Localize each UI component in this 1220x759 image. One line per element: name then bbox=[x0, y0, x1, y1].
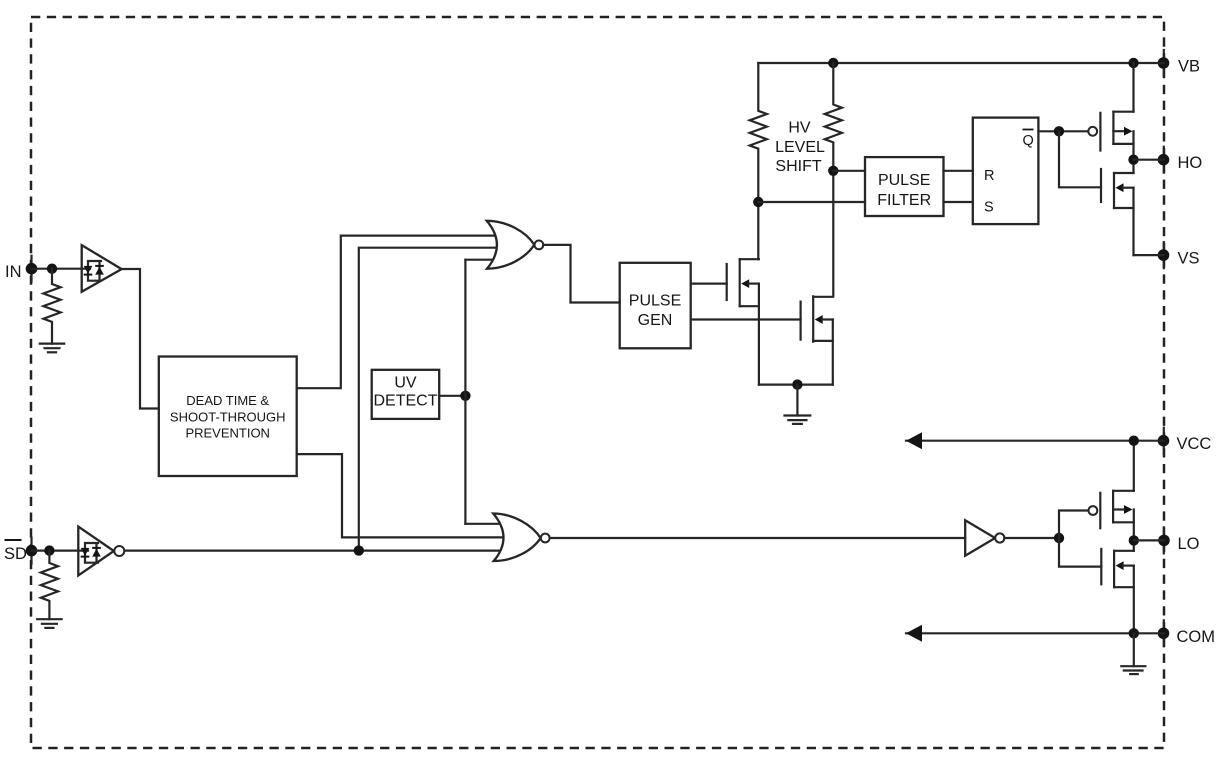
pin COM bbox=[1158, 628, 1215, 646]
wire S path to PULSE FILTER bbox=[758, 201, 865, 203]
wire NOR1 output to PULSE GEN bbox=[543, 245, 619, 303]
wire SD line to NOR1 input B (vertical) bbox=[359, 248, 503, 551]
pin LO bbox=[1158, 535, 1199, 553]
svg-text:DEAD TIME &: DEAD TIME & bbox=[186, 393, 269, 408]
wire R path to PULSE FILTER bbox=[833, 170, 865, 172]
wire DT top output to NOR1 input A bbox=[297, 236, 503, 389]
resistor R-IN pulldown bbox=[43, 269, 60, 344]
pin IN bbox=[5, 263, 37, 281]
svg-text:PULSE: PULSE bbox=[878, 172, 930, 189]
svg-text:S: S bbox=[984, 200, 994, 216]
svg-text:VCC: VCC bbox=[1177, 435, 1212, 453]
resistor R-SD pulldown bbox=[41, 551, 58, 620]
svg-text:FILTER: FILTER bbox=[877, 192, 931, 209]
arrow VCC (pointing left) bbox=[906, 432, 922, 449]
resistor R-LS1 (left HV level shift) bbox=[750, 63, 767, 202]
svg-text:GEN: GEN bbox=[638, 312, 673, 329]
wire VB rail bbox=[758, 62, 1163, 64]
ground (COM) bbox=[1121, 633, 1145, 674]
svg-text:IN: IN bbox=[5, 263, 22, 281]
pin VCC bbox=[1158, 435, 1212, 453]
internal ESD diode pair bbox=[85, 543, 98, 563]
wire PULSE FILTER R output to latch bbox=[944, 170, 973, 172]
svg-text:R: R bbox=[984, 168, 994, 184]
gate NOR1 (high side) bbox=[487, 221, 544, 269]
svg-text:PREVENTION: PREVENTION bbox=[185, 426, 270, 441]
border dash stubs at pins bbox=[32, 50, 1164, 646]
node: LO gate junction bbox=[1054, 533, 1064, 543]
node HO junction bbox=[1128, 155, 1138, 165]
wire Qbar down to HO NMOS gate bbox=[1059, 131, 1101, 187]
block: PULSE FILTER bbox=[865, 157, 944, 216]
wire SD pin to inverting buffer bbox=[32, 549, 89, 551]
node: IN junction bbox=[47, 264, 57, 274]
svg-text:PULSE: PULSE bbox=[629, 293, 681, 310]
svg-text:HO: HO bbox=[1178, 154, 1203, 172]
ground (SD pulldown) bbox=[37, 619, 61, 628]
transistor Q-LO-N (low side NMOS) bbox=[1101, 540, 1134, 633]
svg-text:COM: COM bbox=[1177, 628, 1216, 646]
wire inverter output to gate junction bbox=[1004, 537, 1059, 539]
node COM junction bbox=[1129, 628, 1139, 638]
svg-text:LEVEL: LEVEL bbox=[775, 139, 825, 156]
node: SD junction bbox=[44, 545, 54, 555]
block: PULSE GEN bbox=[620, 263, 691, 349]
gate NOR2 (low side) bbox=[493, 514, 549, 562]
node: Qbar junction bbox=[1054, 126, 1064, 136]
wire LO junction to pin bbox=[1134, 539, 1164, 541]
wire PULSE GEN bottom output to M2 gate bbox=[691, 318, 801, 320]
wire common source line bbox=[759, 384, 833, 386]
transistor Q-HO-N (high side NMOS) bbox=[1101, 160, 1134, 255]
svg-text:LO: LO bbox=[1178, 535, 1200, 553]
node: UV junction bbox=[460, 391, 470, 401]
transistor M2 (level shift, lower NMOS) bbox=[801, 296, 833, 384]
resistor R-LS2 (right HV level shift) bbox=[825, 63, 842, 171]
svg-text:DETECT: DETECT bbox=[374, 392, 438, 409]
label HV LEVEL SHIFT bbox=[775, 120, 825, 176]
wire IN pin to input buffer bbox=[32, 268, 91, 270]
block: DEAD TIME & SHOOT-THROUGH PREVENTION bbox=[159, 357, 297, 477]
ground (IN pulldown) bbox=[40, 344, 64, 353]
svg-text:VB: VB bbox=[1178, 58, 1200, 76]
svg-text:Q: Q bbox=[1023, 133, 1034, 149]
wire COM rail with arrow bbox=[906, 632, 1164, 634]
wire Qbar to output gates bbox=[1038, 130, 1088, 132]
wire to VS pin bbox=[1134, 254, 1164, 256]
svg-text:UV: UV bbox=[394, 374, 417, 391]
arrow COM (pointing left) bbox=[906, 625, 922, 642]
svg-text:SHOOT-THROUGH: SHOOT-THROUGH bbox=[170, 410, 286, 425]
internal ESD diode pair bbox=[88, 261, 101, 281]
block: UV DETECT bbox=[372, 370, 440, 419]
input buffer U-SD (inverting, with ESD diodes) bbox=[78, 527, 124, 576]
svg-text:HV: HV bbox=[788, 120, 811, 137]
node: right resistor bottom junction bbox=[828, 166, 838, 176]
wire M1 drain rail up to left HV resistor bbox=[757, 202, 759, 259]
node: left resistor bottom junction bbox=[753, 197, 763, 207]
wire PULSE FILTER S output to latch bbox=[944, 201, 973, 203]
wire NOR2 output to LO inverter bbox=[550, 537, 966, 539]
node LO junction bbox=[1129, 535, 1139, 545]
wire UV DETECT output bbox=[439, 395, 465, 397]
latch U-RS (R/S latch with Qbar) bbox=[973, 118, 1039, 225]
wire VCC rail with arrow bbox=[906, 440, 1164, 442]
node: source junction bbox=[792, 379, 802, 389]
wire SD buffer output line to NOR2 input C bbox=[125, 549, 509, 551]
node: SD line junction bbox=[354, 545, 364, 555]
pin VS bbox=[1158, 249, 1200, 267]
svg-text:SHIFT: SHIFT bbox=[775, 158, 821, 175]
input buffer U-IN (triangle with ESD diodes) bbox=[82, 245, 122, 292]
svg-text:SD: SD bbox=[4, 545, 27, 563]
wire buffer output to DEAD TIME block bbox=[122, 269, 159, 409]
pin HO bbox=[1158, 154, 1203, 172]
wire junction to LO PMOS gate bbox=[1059, 511, 1088, 539]
transistor Q-LO-P (low side PMOS) bbox=[1089, 441, 1134, 541]
node on VB rail (output stage) bbox=[1128, 58, 1138, 68]
ground (level shift) bbox=[785, 385, 811, 424]
wire PULSE GEN top output to M1 gate bbox=[691, 283, 727, 285]
transistor M1 (level shift, upper NMOS) bbox=[727, 259, 759, 384]
inverter U-LO bbox=[965, 520, 1004, 555]
wire HO junction to pin bbox=[1134, 159, 1164, 161]
wire UV vertical to NOR1 input C and NOR2 input A bbox=[464, 260, 466, 524]
pin VB bbox=[1158, 57, 1200, 75]
node on VB rail (right resistor top) bbox=[828, 58, 838, 68]
svg-text:VS: VS bbox=[1178, 250, 1200, 268]
wire DT bottom output to NOR2 input B bbox=[297, 454, 510, 537]
transistor Q-HO-P (high side PMOS) bbox=[1088, 63, 1133, 160]
pin SD (with overline) bbox=[4, 540, 37, 563]
node VCC junction bbox=[1129, 436, 1139, 446]
wire M2 drain rail up to right HV resistor bbox=[832, 171, 834, 296]
wire junction to LO NMOS gate bbox=[1059, 538, 1101, 567]
